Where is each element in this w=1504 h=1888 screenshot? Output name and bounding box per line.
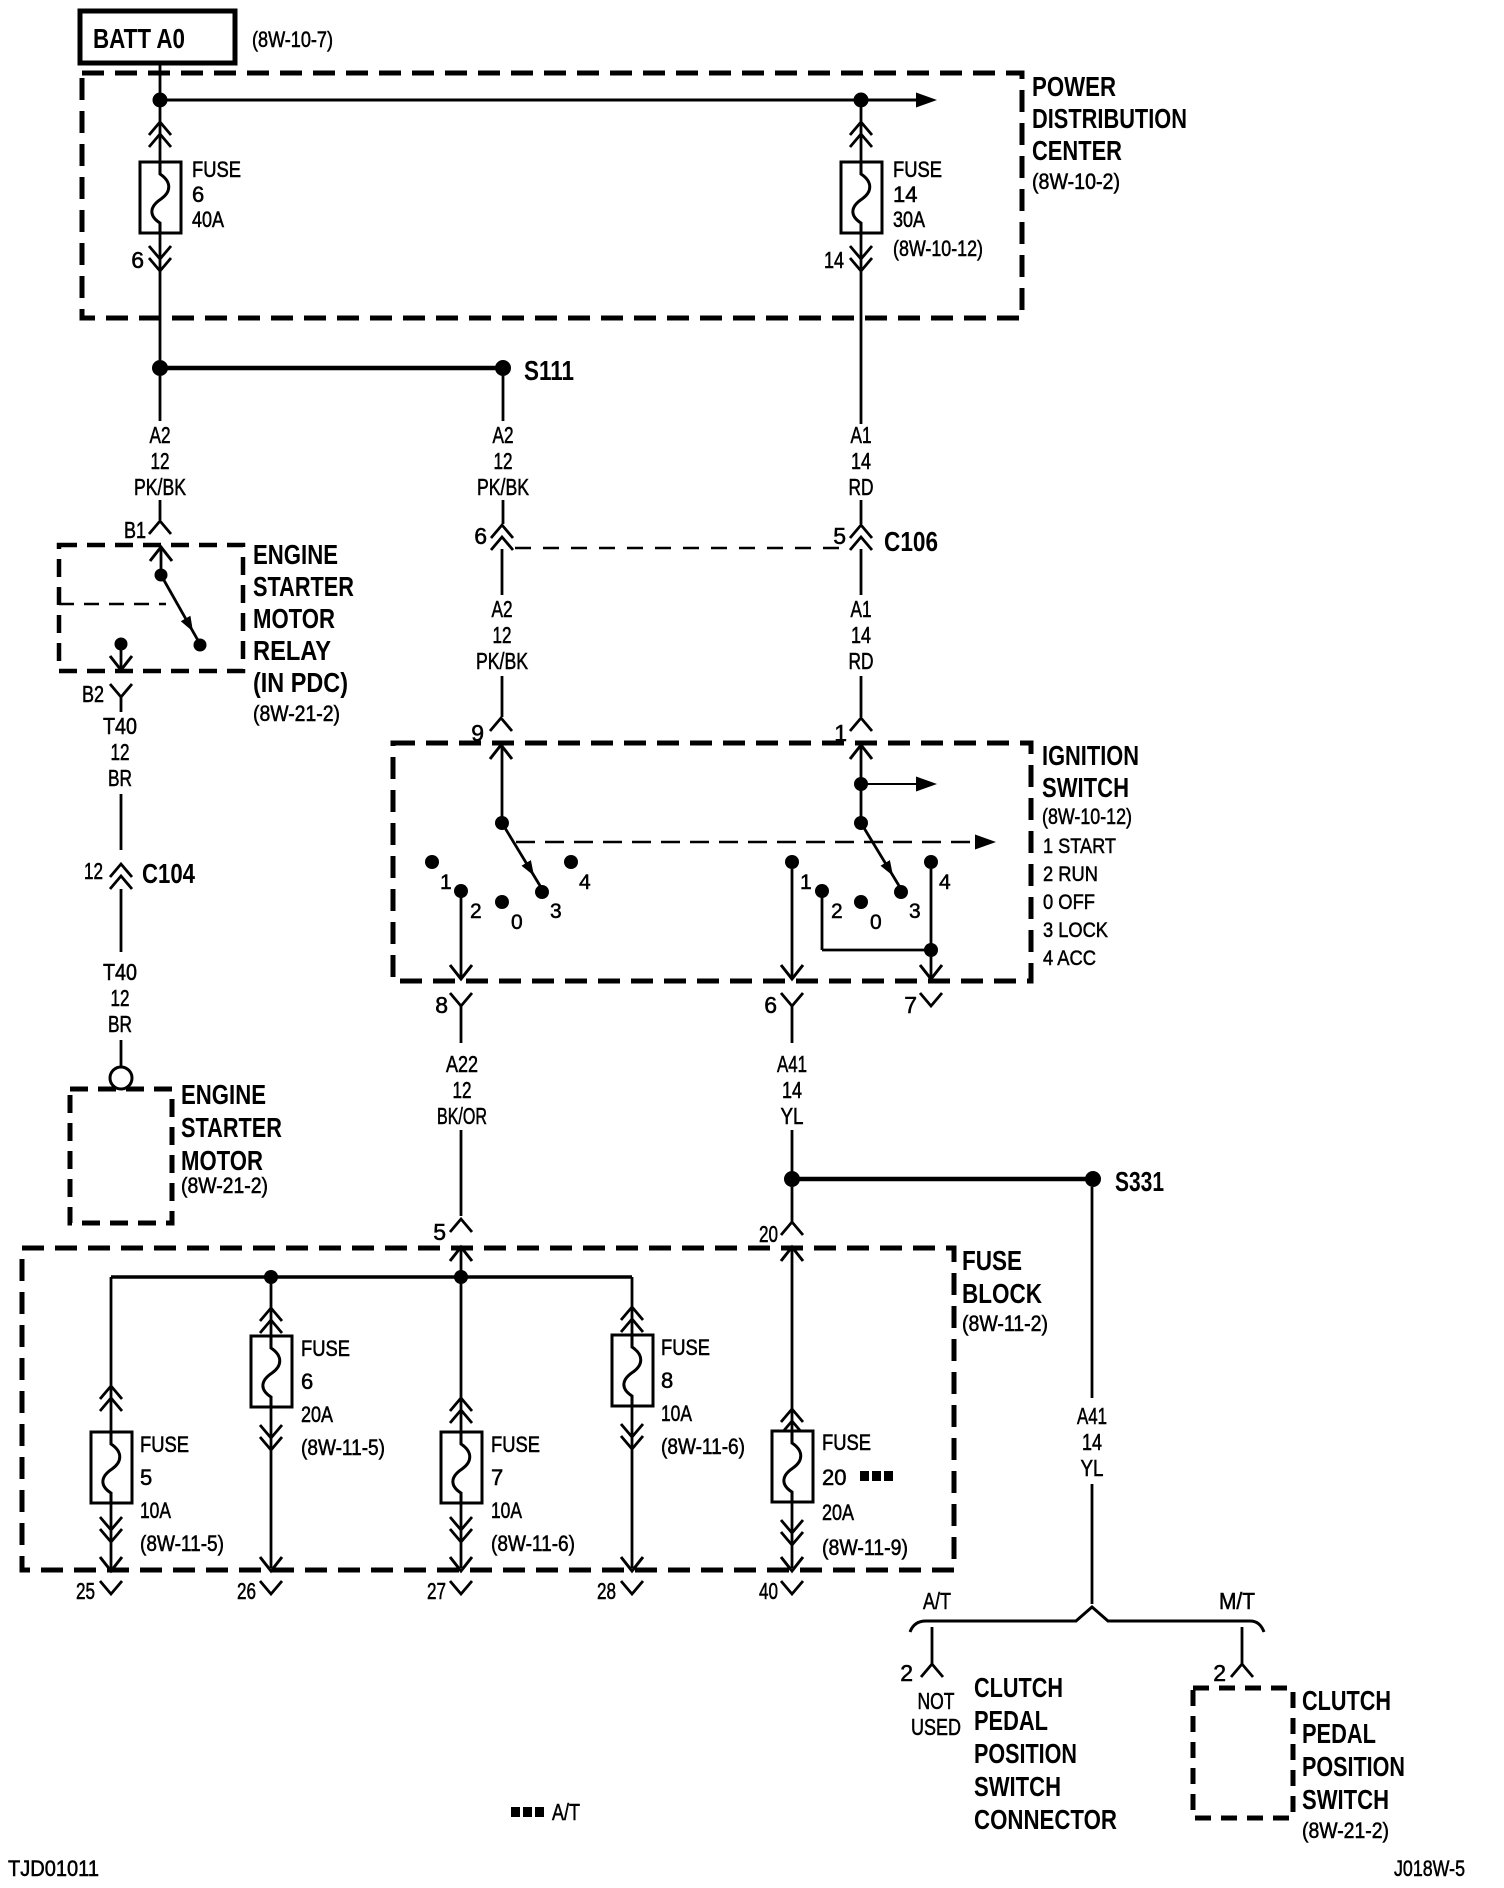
svg-text:0 OFF: 0 OFF (1043, 891, 1095, 914)
fuse F20 20A (772, 1409, 908, 1571)
svg-text:28: 28 (597, 1578, 616, 1604)
svg-text:PK/BK: PK/BK (477, 474, 529, 500)
splice S111 (152, 355, 574, 386)
connector B2 (82, 681, 132, 712)
wire PDC feed bus (160, 99, 918, 102)
svg-text:PK/BK: PK/BK (476, 648, 528, 674)
svg-text:SWITCH: SWITCH (974, 1771, 1061, 1802)
wire A2 12 PK/BK left (134, 376, 186, 520)
svg-text:(8W-21-2): (8W-21-2) (253, 701, 340, 726)
connector ignition pin 6 (764, 992, 803, 1022)
svg-text:PEDAL: PEDAL (1302, 1718, 1376, 1749)
svg-text:(8W-21-2): (8W-21-2) (181, 1173, 268, 1198)
svg-text:A41: A41 (777, 1051, 807, 1077)
svg-text:FUSE: FUSE (301, 1336, 350, 1361)
wire A22 12 BK/OR (437, 1022, 487, 1216)
footer sheet codes (8, 1856, 1465, 1881)
svg-text:J018W-5: J018W-5 (1394, 1856, 1465, 1881)
svg-text:(8W-11-2): (8W-11-2) (962, 1311, 1048, 1336)
svg-text:1 START: 1 START (1043, 835, 1116, 858)
svg-text:(8W-10-7): (8W-10-7) (252, 27, 333, 52)
svg-text:BR: BR (108, 1011, 132, 1037)
clutch pedal position switch title (1302, 1685, 1405, 1843)
connector ignition pin 7 (904, 992, 942, 1018)
svg-text:YL: YL (1081, 1455, 1104, 1481)
ignition right wafer contacts (785, 855, 951, 934)
wire A41 14 YL lower (1077, 1187, 1107, 1604)
svg-text:A1: A1 (851, 596, 872, 622)
fuse F14 30A branch (824, 100, 983, 424)
svg-text:14: 14 (851, 622, 871, 648)
svg-text:2: 2 (470, 900, 482, 923)
svg-text:DISTRIBUTION: DISTRIBUTION (1032, 103, 1187, 134)
legend A/T squares (511, 1799, 580, 1825)
svg-text:(8W-11-6): (8W-11-6) (661, 1434, 745, 1459)
svg-text:PK/BK: PK/BK (134, 474, 186, 500)
svg-text:25: 25 (76, 1578, 95, 1604)
svg-text:1: 1 (440, 871, 452, 894)
svg-text:MOTOR: MOTOR (253, 603, 335, 634)
svg-text:30A: 30A (893, 207, 925, 232)
svg-text:CLUTCH: CLUTCH (1302, 1685, 1391, 1716)
PDC bus arrow (916, 93, 937, 108)
svg-text:10A: 10A (140, 1498, 171, 1523)
connector fuse block pin 5 (433, 1219, 472, 1277)
svg-text:(8W-11-6): (8W-11-6) (491, 1531, 575, 1556)
ignition left wafer output wire (450, 897, 472, 979)
fuse F7 10A (441, 1277, 575, 1571)
svg-text:12: 12 (494, 448, 513, 474)
svg-text:FUSE: FUSE (491, 1432, 540, 1457)
svg-text:STARTER: STARTER (181, 1112, 282, 1143)
connector C106 pin 5 (833, 523, 938, 557)
fuse block exit 25 (76, 1578, 122, 1604)
svg-text:14: 14 (1082, 1429, 1102, 1455)
fuse block exit 26 (237, 1578, 282, 1604)
svg-text:4 ACC: 4 ACC (1043, 947, 1096, 970)
fuse block bus wire (111, 1270, 632, 1284)
svg-text:(8W-21-2): (8W-21-2) (1302, 1818, 1389, 1843)
svg-text:CLUTCH: CLUTCH (974, 1672, 1063, 1703)
ignition left wafer pivot and blade (495, 816, 542, 889)
svg-text:3: 3 (550, 900, 562, 923)
svg-text:ENGINE: ENGINE (253, 539, 338, 570)
wire A41 14 YL (777, 1022, 807, 1172)
svg-text:20A: 20A (301, 1402, 333, 1427)
ignition entry arrow pin 9 (490, 745, 512, 823)
relay internal dashed line (59, 603, 166, 606)
svg-text:8: 8 (435, 992, 448, 1018)
wire T40 12 BR lower (103, 959, 137, 1066)
svg-text:4: 4 (939, 871, 951, 894)
wire A1 14 RD upper (849, 549, 874, 717)
svg-text:12: 12 (151, 448, 170, 474)
fuse block exit 27 (427, 1578, 472, 1604)
svg-text:A41: A41 (1077, 1403, 1107, 1429)
clutch pedal position switch connector title (974, 1672, 1117, 1835)
svg-text:BK/OR: BK/OR (437, 1103, 487, 1129)
svg-text:FUSE: FUSE (962, 1245, 1022, 1276)
fuse F5 10A (91, 1277, 224, 1571)
svg-text:T40: T40 (103, 959, 137, 985)
svg-text:12: 12 (453, 1077, 472, 1103)
svg-text:(8W-11-5): (8W-11-5) (301, 1435, 385, 1460)
svg-text:40: 40 (759, 1578, 778, 1604)
svg-text:A1: A1 (851, 422, 872, 448)
svg-text:14: 14 (782, 1077, 802, 1103)
relay entry arrow B1 (150, 547, 172, 575)
ignition right wafer feed node (854, 777, 937, 792)
svg-text:A2: A2 (493, 422, 514, 448)
svg-text:IGNITION: IGNITION (1042, 740, 1139, 771)
svg-text:M/T: M/T (1219, 1588, 1255, 1614)
clutch connector M/T drop (1213, 1627, 1253, 1686)
connector ignition pin 8 (435, 992, 472, 1022)
relay switch contact (155, 569, 207, 652)
label 8W-10-7 (252, 27, 333, 52)
Engine Starter Motor box (70, 1089, 172, 1223)
svg-text:0: 0 (511, 911, 523, 934)
svg-text:5: 5 (833, 523, 846, 549)
svg-text:14: 14 (851, 448, 871, 474)
fuse F8 10A (612, 1277, 745, 1571)
svg-text:6: 6 (301, 1369, 313, 1394)
Ignition Switch box (393, 743, 1031, 981)
svg-text:C106: C106 (884, 526, 938, 557)
svg-text:2 RUN: 2 RUN (1043, 863, 1098, 886)
svg-text:40A: 40A (192, 207, 224, 232)
svg-text:3: 3 (909, 900, 921, 923)
connector C104 (84, 858, 195, 952)
wire T40 12 BR upper (103, 713, 137, 850)
svg-text:27: 27 (427, 1578, 446, 1604)
svg-text:7: 7 (904, 992, 917, 1018)
svg-text:YL: YL (781, 1103, 804, 1129)
svg-text:(8W-11-9): (8W-11-9) (822, 1535, 908, 1560)
svg-text:3 LOCK: 3 LOCK (1043, 919, 1108, 942)
power source BATT A0 (80, 11, 235, 63)
svg-text:ENGINE: ENGINE (181, 1079, 266, 1110)
svg-text:A/T: A/T (552, 1799, 580, 1825)
Fuse Block box (22, 1248, 954, 1570)
ignition internal dashed line with arrow (516, 835, 996, 850)
ignition switch title (1042, 740, 1139, 970)
svg-text:MOTOR: MOTOR (181, 1145, 263, 1176)
svg-text:12: 12 (111, 739, 130, 765)
svg-text:STARTER: STARTER (253, 571, 354, 602)
svg-text:5: 5 (433, 1219, 446, 1245)
svg-text:A2: A2 (150, 422, 171, 448)
wire A2 12 PK/BK from S111 (477, 376, 529, 524)
svg-text:14: 14 (824, 247, 844, 273)
svg-text:B1: B1 (124, 517, 146, 543)
svg-text:12: 12 (111, 985, 130, 1011)
label NOT USED (911, 1688, 961, 1740)
svg-text:5: 5 (140, 1465, 152, 1490)
wire A1 14 RD label above C106 (849, 422, 874, 524)
PDC title (1032, 71, 1187, 194)
svg-text:RD: RD (849, 648, 874, 674)
svg-text:4: 4 (579, 871, 591, 894)
svg-text:2: 2 (831, 900, 843, 923)
svg-text:BR: BR (108, 765, 132, 791)
wire brace A/T M/T (910, 1588, 1264, 1632)
fuse F6 40A branch (131, 100, 241, 360)
svg-text:(8W-10-12): (8W-10-12) (893, 236, 983, 261)
svg-text:12: 12 (493, 622, 512, 648)
ignition left wafer contacts (425, 855, 591, 934)
svg-text:6: 6 (474, 523, 487, 549)
svg-text:BLOCK: BLOCK (962, 1278, 1042, 1309)
svg-text:(8W-11-5): (8W-11-5) (140, 1531, 224, 1556)
connector B1 (124, 517, 171, 543)
svg-text:S331: S331 (1115, 1166, 1164, 1197)
Clutch Pedal Position Switch box (1193, 1688, 1293, 1818)
connector C106 dashed link (515, 547, 847, 550)
svg-text:7: 7 (491, 1465, 503, 1490)
svg-text:2: 2 (900, 1660, 913, 1686)
splice S331 (784, 1166, 1164, 1197)
svg-text:6: 6 (192, 182, 204, 207)
svg-text:8: 8 (661, 1368, 673, 1393)
connector ignition pin 1 (834, 718, 872, 746)
wire A2 12 PK/BK to ignition (476, 549, 528, 717)
svg-text:FUSE: FUSE (140, 1432, 189, 1457)
node battery junction (153, 93, 168, 108)
svg-text:FUSE: FUSE (822, 1430, 871, 1455)
svg-text:0: 0 (870, 911, 882, 934)
svg-text:T40: T40 (103, 713, 137, 739)
svg-text:10A: 10A (491, 1498, 522, 1523)
ignition right wafer output wires (781, 869, 942, 979)
svg-text:(8W-10-12): (8W-10-12) (1042, 804, 1132, 829)
svg-text:NOT: NOT (918, 1688, 955, 1714)
clutch connector A/T drop (900, 1627, 943, 1686)
svg-text:SWITCH: SWITCH (1042, 772, 1129, 803)
node fuse 14 tap (854, 93, 869, 108)
ignition entry arrow pin 1 (850, 745, 872, 784)
svg-text:USED: USED (911, 1714, 961, 1740)
ring terminal (110, 1067, 132, 1089)
svg-text:1: 1 (800, 871, 812, 894)
relay K1 engine starter motor relay box (59, 545, 243, 671)
svg-text:BATT A0: BATT A0 (93, 23, 185, 54)
starter motor title (181, 1079, 282, 1198)
svg-text:B2: B2 (82, 681, 104, 707)
fuse block exit 28 (597, 1578, 643, 1604)
svg-text:A22: A22 (446, 1051, 478, 1077)
svg-text:POSITION: POSITION (1302, 1751, 1405, 1782)
fuse block title (962, 1245, 1048, 1336)
svg-text:A/T: A/T (923, 1588, 951, 1614)
svg-text:CONNECTOR: CONNECTOR (974, 1804, 1117, 1835)
svg-text:SWITCH: SWITCH (1302, 1784, 1389, 1815)
connector C106 pin 6 (474, 523, 513, 550)
svg-text:20: 20 (759, 1221, 778, 1247)
svg-text:10A: 10A (661, 1401, 692, 1426)
connector ignition pin 9 (471, 718, 512, 746)
relay output node B2 (110, 638, 132, 671)
wire battery feed (159, 63, 162, 100)
svg-text:POWER: POWER (1032, 71, 1116, 102)
svg-text:CENTER: CENTER (1032, 135, 1122, 166)
ignition right wafer pivot and blade (854, 784, 901, 889)
svg-text:FUSE: FUSE (192, 157, 241, 182)
svg-text:PEDAL: PEDAL (974, 1705, 1048, 1736)
fuse block exit 40 (759, 1578, 803, 1604)
svg-text:TJD01011: TJD01011 (8, 1856, 99, 1881)
relay title (253, 539, 354, 726)
svg-text:S111: S111 (524, 355, 574, 386)
svg-text:20: 20 (822, 1465, 846, 1490)
svg-text:FUSE: FUSE (893, 157, 942, 182)
svg-text:FUSE: FUSE (661, 1335, 710, 1360)
fuse F6 20A (251, 1277, 385, 1571)
svg-text:14: 14 (893, 182, 917, 207)
svg-text:12: 12 (84, 858, 103, 884)
svg-text:A2: A2 (492, 596, 513, 622)
svg-text:2: 2 (1213, 1660, 1226, 1686)
svg-text:6: 6 (764, 992, 777, 1018)
Power Distribution Center box (82, 73, 1022, 318)
svg-text:RD: RD (849, 474, 874, 500)
svg-text:RELAY: RELAY (253, 635, 331, 666)
svg-text:6: 6 (131, 247, 144, 273)
connector fuse block pin 20 (759, 1187, 803, 1431)
svg-text:(IN PDC): (IN PDC) (253, 667, 348, 698)
svg-text:(8W-10-2): (8W-10-2) (1032, 169, 1120, 194)
svg-text:C104: C104 (142, 858, 195, 889)
svg-text:26: 26 (237, 1578, 256, 1604)
svg-text:20A: 20A (822, 1500, 854, 1525)
svg-text:POSITION: POSITION (974, 1738, 1077, 1769)
